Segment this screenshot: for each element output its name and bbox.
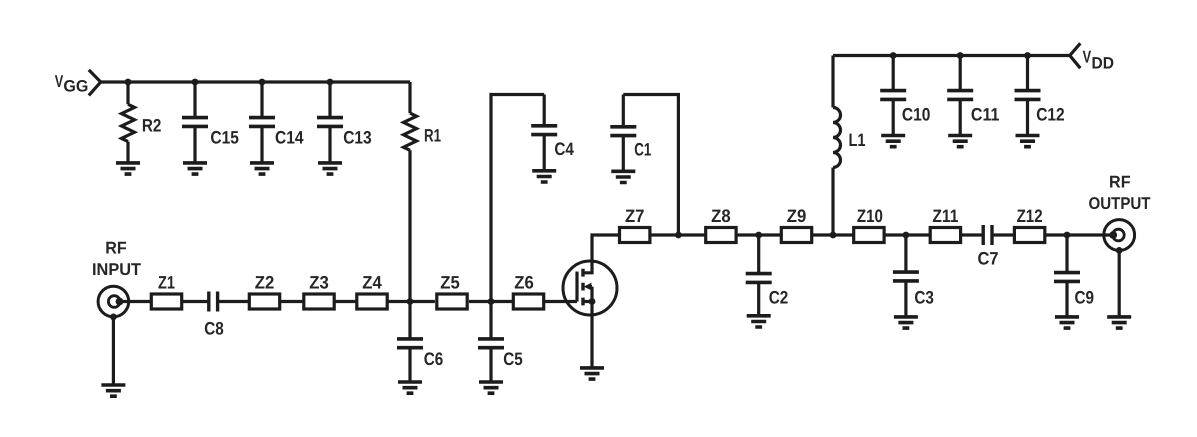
svg-text:INPUT: INPUT [92,260,142,279]
wire C12 bottom lead [1026,99,1029,136]
connector J2 RF output [1104,220,1135,251]
Q1 substrate link [589,287,592,302]
ground under C14 [250,163,274,174]
svg-text:C3: C3 [914,288,934,308]
inductor L1 [833,108,841,168]
svg-text:Z11: Z11 [932,206,958,226]
label C9 [1075,288,1095,308]
label C2 [769,287,789,307]
ground under C5 [479,382,503,393]
node VGG-C13 [327,79,334,86]
wire C7 to Z12 [992,233,1015,236]
wire C4 bottom lead [543,134,546,170]
node output connector shield [1116,247,1123,254]
wire Q1 source to ground [590,302,593,368]
capacitor C6 [397,339,423,348]
label R1 [424,126,441,146]
wire Z8 to Z9 [737,233,781,236]
svg-text:C5: C5 [503,349,523,369]
ground under C4 [532,171,556,182]
node VGG-C15 [192,79,199,86]
wire R1 top lead [408,82,411,113]
label C8 [204,318,224,338]
svg-text:C6: C6 [424,349,444,369]
svg-text:Z7: Z7 [625,206,645,226]
impedance Z10 [854,228,884,243]
ground under C11 [948,136,972,147]
wire C11 top lead [959,56,962,92]
wire Z2 to Z3 [281,300,303,303]
capacitor C8 (series) [209,292,218,312]
ground under RF output [1107,317,1131,328]
wire VGG rail [101,80,410,83]
resistor R1 [404,113,417,150]
impedance Z4 [357,294,387,309]
node Q1 source/substrate [589,298,596,305]
label C4 [554,139,574,159]
label Z6 [514,273,534,293]
wire Z1 to C8 [183,300,209,303]
label Z3 [309,273,329,293]
ground under RF input [101,385,125,396]
svg-text:DD: DD [1092,54,1115,72]
svg-text:R2: R2 [142,116,162,136]
impedance Z1 [151,294,181,309]
ground under C3 [894,317,918,328]
impedance Z7 [620,228,650,243]
svg-text:Z8: Z8 [711,206,731,226]
label C7 [978,249,999,269]
label L1 [849,130,866,150]
wire Z7 to Z8 [650,233,705,236]
ground under C2 [747,316,771,327]
wire C2 bottom lead [757,282,760,316]
capacitor C4 [531,126,557,135]
node F (Z10/Z11, C3) [903,232,910,239]
net label VGG [55,72,89,96]
Q1 source stub [583,300,592,303]
wire C14 top lead [260,82,263,118]
label R2 [142,116,162,136]
capacitor C9 [1054,273,1080,282]
ground under C9 [1055,317,1079,328]
capacitor C15 [182,118,208,127]
node D (Z8/Z9, C2) [755,232,762,239]
transistor Q1 MOSFET body circle [563,261,617,315]
wire C9 bottom lead [1065,281,1068,317]
label RF INPUT [92,239,142,280]
svg-text:Z9: Z9 [787,206,807,226]
svg-text:C7: C7 [978,249,999,269]
impedance Z11 [930,228,960,243]
label C6 [424,349,444,369]
ground under C10 [881,136,905,147]
svg-text:C8: C8 [204,318,224,338]
wire C5 top lead [489,302,492,340]
label Z2 [255,273,275,293]
impedance Z9 [781,228,811,243]
svg-text:C12: C12 [1036,105,1065,125]
wire C9 top lead [1065,235,1068,273]
node E (Z9/Z10, L1) [830,232,837,239]
wire input shield to ground [112,317,115,385]
wire Z11 to C7 [961,233,983,236]
capacitor C1 [610,127,636,136]
label Z9 [787,206,807,226]
wire Z9 to Z10 [812,233,853,236]
ground under C15 [183,163,207,174]
wire C1 top lead [622,95,625,128]
label Z10 [857,206,883,226]
svg-text:Z5: Z5 [440,273,460,293]
capacitor C2 [746,274,772,283]
node VGG-C14 [259,79,266,86]
svg-text:Z1: Z1 [158,273,175,293]
node B (Z5/Z6, C4 riser, C5) [488,298,495,305]
label C5 [503,349,523,369]
node input connector shield [110,314,117,321]
svg-text:Z2: Z2 [255,273,275,293]
wire C10 top lead [892,56,895,92]
wire C3 top lead [904,235,907,272]
wire C13 bottom lead [328,126,331,163]
label RF OUTPUT [1089,172,1152,213]
node VGG-R2 [125,79,132,86]
label Z8 [711,206,731,226]
svg-text:Z4: Z4 [362,273,382,293]
wire Z3 to Z4 [335,300,355,303]
node VDD-C11 [957,52,964,59]
label C12 [1036,105,1065,125]
wire C13 top lead [328,82,331,118]
node VDD-C10 [890,52,897,59]
svg-text:Z6: Z6 [514,273,534,293]
label Z1 [158,273,175,293]
wire C15 top lead [193,82,196,118]
node A (Z4/Z5, R1, C6) [407,298,414,305]
capacitor C11 [947,91,973,100]
wire C6 top lead [408,302,411,340]
wire C2 top lead [757,235,760,274]
wire Z6 to gate [545,300,577,303]
ground under C12 [1016,136,1040,147]
label C3 [914,288,934,308]
svg-text:C9: C9 [1075,288,1095,308]
capacitor C14 [249,118,275,127]
svg-text:C4: C4 [554,139,574,159]
connector J1 RF input [98,286,129,317]
ground under R2 [116,163,140,174]
capacitor C5 [478,339,504,348]
svg-text:C11: C11 [971,105,1000,125]
svg-text:C14: C14 [275,128,304,148]
wire Z4 to node A [388,300,435,303]
impedance Z12 [1014,228,1044,243]
svg-text:L1: L1 [849,130,866,150]
wire C15 bottom lead [193,126,196,163]
net label VDD [1083,48,1114,73]
Q1 gate plate [575,272,578,302]
impedance Z6 [513,294,543,309]
impedance Z3 [304,294,334,309]
ground under C6 [398,382,422,393]
svg-text:Z3: Z3 [309,273,329,293]
label C11 [971,105,1000,125]
wire C11 bottom lead [959,99,962,136]
Q1 substrate arrow [584,283,592,291]
wire output shield to ground [1118,250,1121,317]
label Z5 [440,273,460,293]
wire VDD rail [833,54,1070,57]
wire C4 top lead [543,95,546,127]
capacitor C12 [1015,91,1041,100]
wire C10 bottom lead [892,99,895,136]
capacitor C10 [880,91,906,100]
svg-text:C10: C10 [902,105,931,125]
label C14 [275,128,304,148]
svg-text:R1: R1 [424,126,441,146]
wire R2 bottom lead [126,142,129,163]
impedance Z5 [437,294,467,309]
wire C12 top lead [1026,56,1029,92]
node G (Z12/J2, C9) [1064,232,1071,239]
wire L1 to VDD rail [831,56,834,108]
label C15 [210,128,239,148]
svg-text:C1: C1 [634,139,651,159]
wire Z12 to J2 [1045,233,1114,236]
capacitor C3 [893,272,919,281]
ground under C1 [611,171,635,182]
label C1 [634,139,651,159]
svg-text:C2: C2 [769,287,789,307]
capacitor C13 [317,118,343,127]
wire L1 top lead [831,168,834,236]
ground under C13 [318,163,342,174]
impedance Z8 [706,228,736,243]
label Z12 [1017,206,1043,226]
node VDD-C12 [1024,52,1031,59]
impedance Z2 [249,294,279,309]
label Z4 [362,273,382,293]
wire R2 top lead [126,82,129,104]
wire drain node riser to C1 [623,95,678,236]
svg-text:RF: RF [105,239,127,258]
wire C5 bottom lead [489,347,492,382]
VGG input terminal chevron [89,70,101,96]
svg-text:C15: C15 [210,128,239,148]
svg-text:C13: C13 [343,128,372,148]
svg-text:GG: GG [63,78,88,96]
wire Z10 to Z11 [885,233,930,236]
wire C14 bottom lead [260,126,263,163]
label Z11 [932,206,958,226]
wire input line J1 to Z1 [120,300,151,303]
svg-text:Z10: Z10 [857,206,883,226]
wire C6 bottom lead [408,347,411,382]
wire node B riser to C4 [491,95,544,302]
label C10 [902,105,931,125]
svg-text:V: V [1083,48,1092,67]
wire C3 bottom lead [904,281,907,317]
svg-text:Z12: Z12 [1017,206,1043,226]
Q1 drain stub and drain lead [583,235,619,273]
VDD input terminal chevron [1070,43,1081,68]
ground under Q1 source [580,368,604,379]
wire Z5 to node B [469,300,512,303]
capacitor C7 (series) [983,225,992,245]
label Z7 [625,206,645,226]
svg-text:RF: RF [1109,172,1131,191]
wire C1 bottom lead [622,135,625,171]
wire C8 to Z2 [218,300,249,303]
resistor R2 [122,104,135,141]
node C (Z7/Z8, C1 riser) [675,232,682,239]
wire R1 bottom lead [408,150,411,301]
svg-text:OUTPUT: OUTPUT [1089,194,1152,213]
label C13 [343,128,372,148]
Q1 channel segments [581,269,584,306]
